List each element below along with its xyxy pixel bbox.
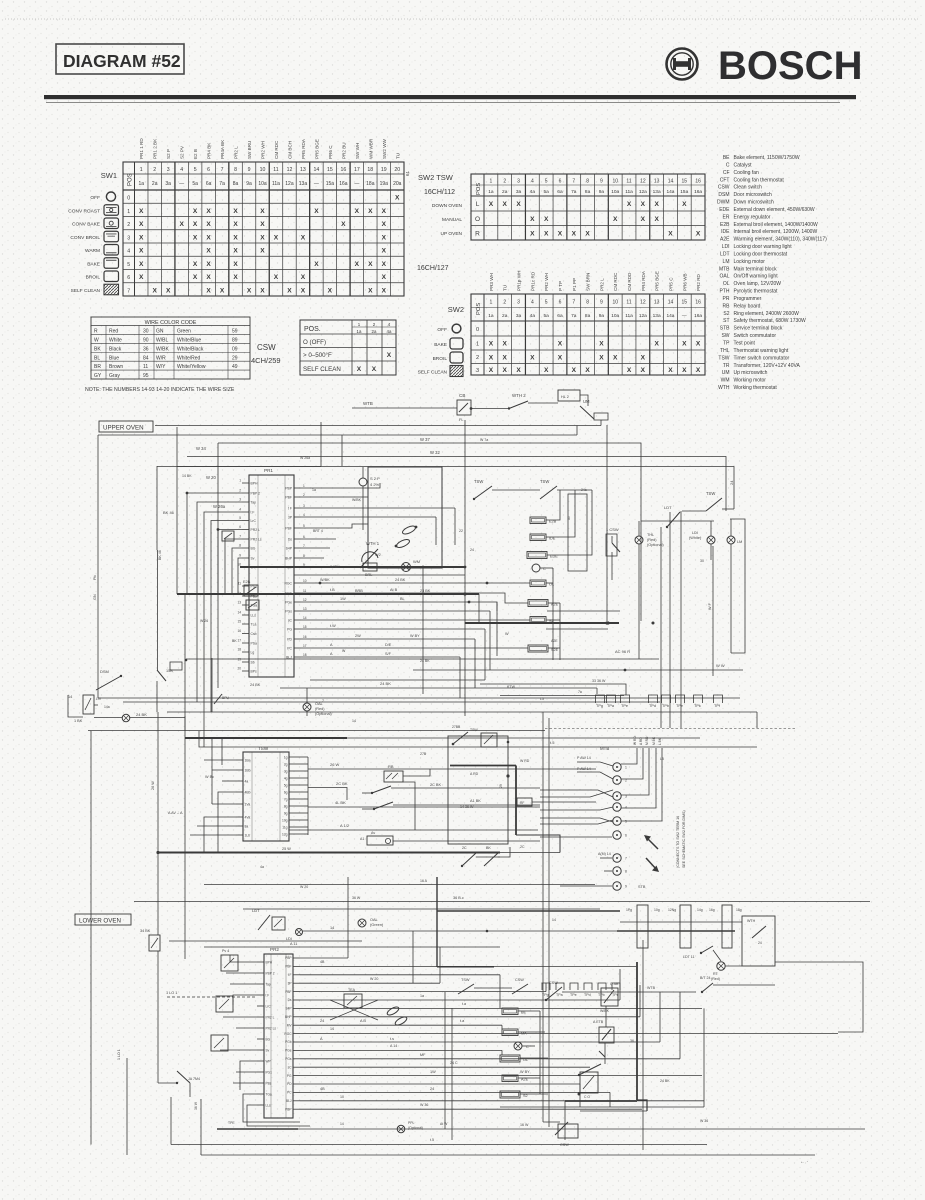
svg-text:PR2 RD: PR2 RD bbox=[696, 273, 701, 291]
svg-text:1: 1 bbox=[239, 479, 241, 483]
svg-text:10a: 10a bbox=[611, 189, 619, 195]
thermostat lamp THL bbox=[635, 521, 664, 659]
regulator contact box bbox=[222, 531, 234, 541]
svg-text:X: X bbox=[516, 367, 521, 374]
vertical trunk x185 bbox=[184, 594, 186, 731]
svg-text:4a: 4a bbox=[260, 865, 264, 869]
svg-text:14 BK: 14 BK bbox=[182, 474, 192, 478]
clean switch CSW upper bbox=[606, 527, 620, 580]
svg-text:18a: 18a bbox=[366, 181, 375, 187]
junction dots ladder bbox=[319, 582, 655, 625]
svg-text:3: 3 bbox=[127, 235, 130, 241]
svg-text:Sb: Sb bbox=[251, 661, 255, 665]
switch chain right bbox=[647, 962, 863, 1032]
bundle verticals mid bottom bbox=[445, 992, 452, 1140]
svg-text:TPb: TPb bbox=[662, 704, 669, 708]
svg-text:TPg: TPg bbox=[596, 704, 603, 708]
svg-text:P AW 14: P AW 14 bbox=[577, 767, 591, 771]
svg-text:Pv 4: Pv 4 bbox=[222, 949, 229, 953]
svg-text:7a: 7a bbox=[578, 690, 582, 694]
svg-text:7: 7 bbox=[322, 699, 324, 703]
svg-text:X: X bbox=[357, 366, 362, 373]
svg-text:PBP 2: PBP 2 bbox=[251, 492, 261, 496]
svg-text:SW WH: SW WH bbox=[355, 143, 360, 159]
svg-text:R: R bbox=[94, 329, 98, 335]
svg-text:5: 5 bbox=[545, 300, 548, 306]
svg-text:PD: PD bbox=[287, 637, 292, 641]
svg-text:RB: RB bbox=[723, 303, 731, 309]
svg-text:PGe: PGe bbox=[285, 1049, 292, 1053]
svg-text:8: 8 bbox=[586, 179, 589, 185]
svg-text:14: 14 bbox=[303, 616, 307, 620]
svg-text:13: 13 bbox=[237, 601, 241, 605]
svg-text:1 CSW: 1 CSW bbox=[606, 527, 619, 532]
TSW left pins bbox=[236, 759, 251, 838]
svg-text:BL: BL bbox=[400, 597, 405, 601]
svg-text:White/Black: White/Black bbox=[177, 346, 204, 352]
svg-text:White/Blue: White/Blue bbox=[177, 337, 201, 343]
svg-text:Warming element, 340W(110), 34: Warming element, 340W(110), 340W(117) bbox=[734, 237, 828, 243]
svg-text:X: X bbox=[260, 234, 265, 241]
svg-text:BROIL: BROIL bbox=[86, 275, 101, 281]
upper oven frame top bbox=[155, 425, 601, 427]
svg-text:(Optional): (Optional) bbox=[647, 543, 664, 547]
svg-text:24 BK: 24 BK bbox=[136, 712, 147, 717]
svg-text:LDT: LDT bbox=[720, 251, 729, 257]
svg-text:10a: 10a bbox=[611, 313, 619, 319]
PR2 left pins bbox=[257, 961, 276, 1108]
svg-text:(Green): (Green) bbox=[370, 923, 384, 927]
relay contact b bbox=[362, 802, 393, 810]
svg-text:15: 15 bbox=[327, 167, 333, 173]
PR2 right bus wires bbox=[300, 958, 838, 1109]
svg-text:7: 7 bbox=[221, 167, 224, 173]
svg-text:X: X bbox=[233, 248, 238, 255]
svg-text:X: X bbox=[654, 201, 659, 208]
svg-text:THL: THL bbox=[647, 533, 654, 537]
svg-text:9a: 9a bbox=[246, 181, 252, 187]
svg-text:CSW: CSW bbox=[257, 343, 276, 352]
svg-text:W2: W2 bbox=[375, 553, 381, 557]
svg-text:Clean switch: Clean switch bbox=[734, 185, 763, 191]
svg-text:W 34: W 34 bbox=[196, 446, 206, 451]
svg-text:X: X bbox=[668, 230, 673, 237]
svg-text:7: 7 bbox=[625, 857, 627, 861]
svg-text:DSM: DSM bbox=[100, 669, 109, 674]
svg-text:CSW: CSW bbox=[560, 1143, 569, 1147]
svg-text:4B: 4B bbox=[320, 960, 325, 964]
svg-text:X: X bbox=[260, 208, 265, 215]
svg-text:7: 7 bbox=[303, 544, 305, 548]
svg-text:W 32: W 32 bbox=[430, 450, 440, 455]
svg-text:X: X bbox=[382, 261, 387, 268]
svg-text:PR1: PR1 bbox=[264, 468, 273, 473]
svg-text:—: — bbox=[179, 181, 184, 187]
warning lamp RT bbox=[711, 950, 742, 981]
svg-text:4: 4 bbox=[180, 167, 183, 173]
svg-text:14: 14 bbox=[330, 1027, 334, 1031]
svg-text:LDT 11: LDT 11 bbox=[683, 955, 694, 959]
svg-text:W 20: W 20 bbox=[370, 977, 378, 981]
svg-text:15: 15 bbox=[237, 620, 241, 624]
svg-text:WTB: WTB bbox=[363, 401, 373, 406]
vertical trunks bottom right bbox=[543, 940, 643, 1150]
svg-text:S/F: S/F bbox=[385, 652, 392, 656]
door microswitch DSM bbox=[68, 669, 122, 723]
upper oven frame left bbox=[98, 435, 577, 680]
svg-text:24 C: 24 C bbox=[450, 1061, 458, 1065]
svg-text:POS.: POS. bbox=[304, 326, 321, 333]
svg-text:X: X bbox=[301, 274, 306, 281]
element stub box E2B bbox=[243, 580, 258, 596]
svg-text:20: 20 bbox=[394, 167, 400, 173]
svg-text:3a: 3a bbox=[516, 189, 522, 195]
svg-text:5: 5 bbox=[194, 167, 197, 173]
svg-text:CFT: CFT bbox=[720, 177, 730, 183]
svg-text:PBP: PBP bbox=[285, 1107, 291, 1111]
svg-text:MF: MF bbox=[420, 1053, 426, 1057]
main terminal block MTB bbox=[600, 746, 627, 890]
svg-text:PSa: PSa bbox=[251, 642, 258, 646]
blade on x218 bbox=[214, 694, 230, 704]
svg-text:TPe: TPe bbox=[676, 704, 683, 708]
svg-text:At B: At B bbox=[390, 588, 398, 592]
svg-text:14: 14 bbox=[314, 167, 320, 173]
thermostat WTH1 bbox=[360, 541, 380, 577]
lower wire labels bbox=[320, 960, 529, 1127]
svg-text:7: 7 bbox=[572, 300, 575, 306]
svg-text:Switch commutator: Switch commutator bbox=[734, 333, 777, 339]
svg-text:White/Yellow: White/Yellow bbox=[177, 364, 206, 370]
svg-text:Cooling fan: Cooling fan bbox=[734, 170, 760, 176]
bold feeder L bbox=[437, 877, 620, 967]
svg-text:Locking door warning light: Locking door warning light bbox=[734, 244, 793, 250]
svg-text:X: X bbox=[139, 248, 144, 255]
svg-text:19a: 19a bbox=[380, 181, 389, 187]
svg-text:X: X bbox=[382, 287, 387, 294]
svg-text:W: W bbox=[94, 337, 99, 343]
svg-text:A1: A1 bbox=[360, 837, 364, 841]
svg-text:X: X bbox=[503, 201, 508, 208]
svg-text:GY: GY bbox=[94, 373, 102, 379]
svg-text:BE: BE bbox=[723, 155, 730, 161]
svg-text:X: X bbox=[233, 274, 238, 281]
arrow marks bbox=[644, 835, 659, 872]
svg-text:L5: L5 bbox=[660, 757, 664, 761]
svg-text:3a: 3a bbox=[165, 181, 171, 187]
svg-text:16: 16 bbox=[695, 300, 701, 306]
svg-text:X: X bbox=[193, 261, 198, 268]
relay wiring bbox=[340, 769, 540, 841]
svg-text:S2: S2 bbox=[723, 311, 729, 317]
svg-text:4: 4 bbox=[531, 179, 534, 185]
svg-text:11: 11 bbox=[273, 167, 278, 173]
svg-text:12Ng: 12Ng bbox=[668, 908, 676, 912]
svg-text:CB: CB bbox=[459, 393, 465, 398]
MTB feeder verticals bbox=[543, 712, 549, 962]
svg-text:A(M) 14: A(M) 14 bbox=[598, 852, 611, 856]
wire bus B bbox=[187, 450, 726, 511]
wire y702 bbox=[123, 701, 660, 703]
svg-text:4: 4 bbox=[625, 806, 627, 810]
svg-text:PGe: PGe bbox=[285, 600, 292, 604]
svg-text:SW2 TSW: SW2 TSW bbox=[418, 173, 454, 182]
svg-text:(Red): (Red) bbox=[315, 707, 325, 711]
rotated note text bbox=[676, 810, 686, 868]
svg-text:W 26a: W 26a bbox=[213, 504, 226, 509]
svg-text:19: 19 bbox=[381, 167, 387, 173]
PR1 left pins bbox=[237, 479, 261, 674]
svg-text:X: X bbox=[274, 234, 279, 241]
contact box lower bbox=[578, 1072, 599, 1099]
svg-text:S2E: S2E bbox=[551, 648, 559, 652]
lamp by DSM bbox=[94, 712, 185, 722]
svg-text:14: 14 bbox=[340, 1122, 344, 1126]
svg-text:WIRE COLOR CODE: WIRE COLOR CODE bbox=[145, 320, 197, 326]
svg-text:Safety thermostat, 680W 1730W: Safety thermostat, 680W 1730W bbox=[734, 318, 807, 324]
svg-text:White/Red: White/Red bbox=[177, 355, 201, 361]
svg-text:TPk: TPk bbox=[694, 704, 701, 708]
wire y670 bbox=[413, 663, 743, 671]
svg-text:61: 61 bbox=[405, 170, 410, 176]
element S2 bbox=[530, 617, 554, 624]
svg-text:OL: OL bbox=[723, 281, 730, 287]
svg-text:X: X bbox=[530, 216, 535, 223]
svg-text:90: 90 bbox=[143, 337, 149, 343]
svg-text:6: 6 bbox=[239, 525, 241, 529]
element return wires bbox=[540, 490, 592, 660]
svg-text:Locking door thermostat: Locking door thermostat bbox=[734, 251, 788, 257]
svg-text:PBF: PBF bbox=[285, 965, 291, 969]
svg-text:sC: sC bbox=[288, 1065, 293, 1069]
svg-text:X: X bbox=[233, 261, 238, 268]
heavy link to y623 bbox=[465, 594, 619, 625]
svg-text:Lg: Lg bbox=[251, 651, 255, 655]
svg-text:36 W: 36 W bbox=[352, 896, 361, 900]
svg-text:7a: 7a bbox=[571, 189, 577, 195]
junction box RF bbox=[517, 798, 596, 806]
svg-text:X: X bbox=[387, 352, 392, 359]
svg-text:t.B: t.B bbox=[330, 588, 335, 592]
locking door thermostat LDT lower bbox=[683, 946, 713, 959]
wire y830 bbox=[289, 823, 538, 830]
svg-text:PR: PR bbox=[723, 296, 730, 302]
svg-text:24 BK: 24 BK bbox=[420, 659, 430, 663]
UM drop wire bbox=[576, 426, 578, 436]
svg-text:PR1p WH: PR1p WH bbox=[517, 271, 522, 291]
svg-text:X: X bbox=[654, 216, 659, 223]
wire WTH2 jog bbox=[528, 390, 588, 406]
heavy bus y594 bbox=[177, 593, 479, 595]
PR2 left nest wires bbox=[220, 955, 257, 1118]
svg-text:15: 15 bbox=[303, 625, 307, 629]
element return drops lower bbox=[518, 1011, 548, 1094]
svg-text:(White): (White) bbox=[689, 536, 702, 540]
svg-text:11a: 11a bbox=[272, 181, 280, 187]
heavy bus y567 bbox=[240, 566, 465, 568]
svg-text:2: 2 bbox=[303, 493, 305, 497]
svg-text:2g: 2g bbox=[284, 762, 288, 766]
svg-text:X: X bbox=[558, 230, 563, 237]
svg-text:WP: WP bbox=[266, 1060, 271, 1064]
wire labels mid bbox=[250, 565, 509, 687]
svg-text:C: C bbox=[543, 566, 546, 571]
wires PR1 to elements bbox=[240, 483, 620, 657]
svg-text:—: — bbox=[354, 181, 359, 187]
svg-text:14a: 14a bbox=[104, 705, 110, 709]
svg-text:PC: PC bbox=[287, 1091, 292, 1095]
PR2 left component boxes bbox=[211, 949, 238, 1051]
svg-text:PPL: PPL bbox=[408, 1121, 415, 1125]
svg-text:TR: TR bbox=[723, 363, 730, 369]
svg-text:14: 14 bbox=[330, 926, 334, 930]
svg-text:9: 9 bbox=[625, 885, 627, 889]
svg-text:X: X bbox=[206, 234, 211, 241]
svg-text:TP: TP bbox=[723, 341, 730, 347]
relay contact a bbox=[362, 786, 391, 794]
wire y680 bbox=[310, 679, 485, 681]
svg-text:15: 15 bbox=[682, 300, 688, 306]
svg-text:16g: 16g bbox=[709, 908, 715, 912]
element E2B upper bbox=[530, 517, 557, 524]
svg-text:X: X bbox=[233, 208, 238, 215]
svg-text:t.5: t.5 bbox=[550, 740, 555, 745]
svg-text:10: 10 bbox=[303, 579, 307, 583]
svg-text:HL 2: HL 2 bbox=[561, 395, 569, 399]
svg-text:PR2 WH: PR2 WH bbox=[544, 273, 549, 291]
svg-text:sC: sC bbox=[288, 618, 293, 622]
element stub box 2 bbox=[246, 600, 259, 610]
svg-text:4L BK: 4L BK bbox=[335, 800, 346, 805]
svg-text:Door microswitch: Door microswitch bbox=[734, 192, 773, 198]
svg-text:33 36 W: 33 36 W bbox=[592, 679, 606, 683]
svg-text:LLs: LLs bbox=[266, 1104, 272, 1108]
svg-text:2: 2 bbox=[503, 179, 506, 185]
svg-text:C: C bbox=[726, 162, 730, 168]
svg-text:t.5: t.5 bbox=[430, 1138, 434, 1142]
svg-text:PR4 RDA: PR4 RDA bbox=[641, 270, 646, 291]
svg-text:PR2 L: PR2 L bbox=[251, 528, 261, 532]
svg-text:A B: A B bbox=[360, 1019, 366, 1023]
svg-text:5: 5 bbox=[545, 179, 548, 185]
svg-text:X: X bbox=[503, 354, 508, 361]
svg-text:X: X bbox=[153, 287, 158, 294]
svg-text:11: 11 bbox=[626, 179, 631, 185]
svg-text:GN: GN bbox=[156, 329, 164, 335]
vertical x681 bbox=[680, 511, 682, 728]
svg-text:89: 89 bbox=[232, 337, 238, 343]
svg-text:WM: WM bbox=[721, 378, 730, 384]
svg-text:X: X bbox=[613, 216, 618, 223]
svg-text:23 BK: 23 BK bbox=[420, 589, 431, 593]
svg-text:TPa: TPa bbox=[556, 993, 563, 997]
svg-text:GN: GN bbox=[93, 594, 97, 600]
svg-text:59: 59 bbox=[232, 329, 238, 335]
svg-text:t F: t F bbox=[251, 511, 255, 515]
svg-text:CSW: CSW bbox=[515, 978, 524, 982]
wire y656 bbox=[186, 649, 659, 659]
svg-text:TPe: TPe bbox=[570, 993, 577, 997]
svg-text:X: X bbox=[355, 208, 360, 215]
svg-text:22: 22 bbox=[459, 529, 463, 533]
wire y698 bbox=[130, 697, 740, 699]
svg-text:WTH 2: WTH 2 bbox=[512, 393, 526, 398]
svg-text:10: 10 bbox=[340, 1095, 344, 1099]
svg-text:SW BRN: SW BRN bbox=[586, 273, 591, 291]
svg-text:X: X bbox=[558, 354, 563, 361]
svg-text:DIAGRAM #52: DIAGRAM #52 bbox=[63, 51, 181, 71]
svg-text:TGa: TGa bbox=[266, 1093, 272, 1097]
svg-text:X: X bbox=[668, 367, 673, 374]
lamp on bottom line bbox=[340, 1121, 448, 1133]
lower grid verticals bbox=[500, 969, 704, 1107]
svg-text:6: 6 bbox=[625, 834, 627, 838]
clean switch CSW lower bbox=[545, 981, 583, 1001]
svg-text:X: X bbox=[206, 261, 211, 268]
svg-text:PR1 2 BK: PR1 2 BK bbox=[153, 138, 158, 159]
svg-text:Csb: Csb bbox=[251, 632, 257, 636]
catalyst C bbox=[532, 564, 546, 572]
svg-text:CSW: CSW bbox=[718, 185, 730, 191]
wire y807 bbox=[308, 800, 540, 807]
svg-text:14g: 14g bbox=[697, 908, 703, 912]
svg-text:X: X bbox=[627, 367, 632, 374]
svg-text:AC 96 R: AC 96 R bbox=[615, 649, 630, 654]
svg-text:X: X bbox=[206, 287, 211, 294]
svg-text:WTH: WTH bbox=[747, 919, 756, 923]
svg-text:TLa: TLa bbox=[251, 623, 257, 627]
bold wire y931 ext bbox=[617, 930, 735, 932]
svg-text:C O: C O bbox=[584, 1095, 590, 1099]
svg-text:10: 10 bbox=[612, 300, 618, 306]
svg-text:X: X bbox=[139, 221, 144, 228]
svg-text:PR2 L: PR2 L bbox=[599, 278, 604, 291]
heavy trunk bottom right bbox=[565, 962, 647, 1140]
svg-text:O: O bbox=[475, 216, 480, 223]
wire bus D bbox=[320, 422, 322, 467]
wire y942 bbox=[169, 940, 362, 942]
svg-text:X: X bbox=[139, 208, 144, 215]
svg-text:Tap: Tap bbox=[266, 983, 271, 987]
svg-text:Up microswitch: Up microswitch bbox=[734, 370, 768, 376]
svg-text:Down microswitch: Down microswitch bbox=[734, 200, 775, 206]
svg-text:1: 1 bbox=[490, 300, 493, 306]
svg-text:A2E: A2E bbox=[551, 639, 558, 643]
Bosch logo symbol bbox=[667, 49, 698, 80]
svg-text:12g: 12g bbox=[282, 832, 288, 836]
svg-text:X: X bbox=[516, 201, 521, 208]
svg-text:X: X bbox=[599, 354, 604, 361]
trunk x158 bbox=[151, 712, 160, 935]
clean switch table CSW 4CH/259 bbox=[251, 320, 396, 375]
svg-text:POS: POS bbox=[128, 173, 134, 186]
wire y787 bbox=[308, 781, 348, 800]
svg-text:1Bb: 1Bb bbox=[245, 769, 251, 773]
svg-text:TSW: TSW bbox=[461, 978, 470, 982]
svg-text:1a: 1a bbox=[488, 313, 494, 319]
svg-text:4a: 4a bbox=[530, 313, 536, 319]
svg-text:X: X bbox=[260, 287, 265, 294]
svg-text:1g: 1g bbox=[284, 755, 288, 759]
svg-text:X: X bbox=[682, 367, 687, 374]
svg-text:Q AB: Q AB bbox=[610, 982, 619, 986]
svg-text:LrC: LrC bbox=[251, 519, 257, 523]
svg-text:X: X bbox=[301, 287, 306, 294]
svg-text:2: 2 bbox=[476, 355, 479, 361]
svg-text:Relay board: Relay board bbox=[734, 303, 761, 309]
svg-text:W/BL: W/BL bbox=[156, 337, 168, 343]
svg-text:X: X bbox=[572, 230, 577, 237]
